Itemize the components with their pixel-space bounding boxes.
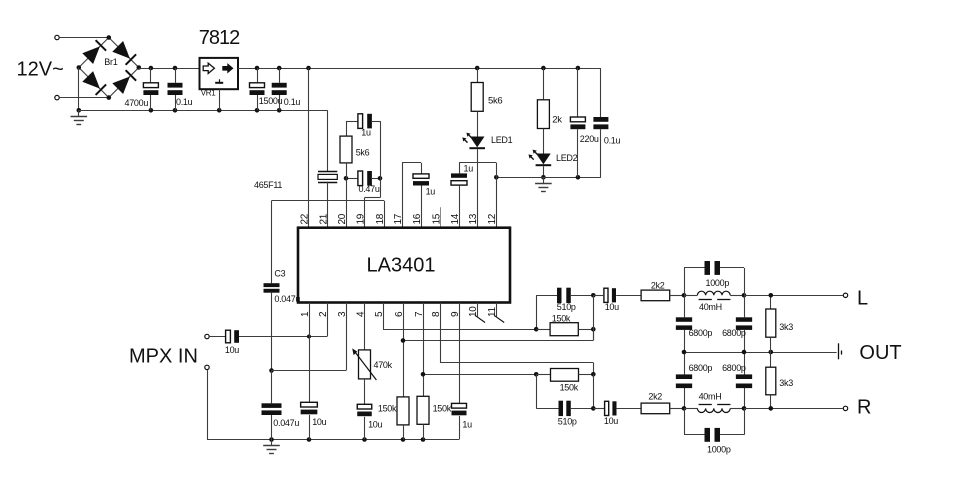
svg-text:10u: 10u: [605, 302, 619, 312]
bridge rectifier Br1: [77, 35, 142, 100]
capacitor 0.1u (right): [593, 68, 620, 177]
capacitor 1u (pins 14-12): [451, 163, 497, 228]
svg-text:22: 22: [299, 213, 310, 224]
label R: [857, 397, 871, 419]
svg-text:0.047u: 0.047u: [274, 294, 300, 304]
wire LED/cap return to pin 12: [494, 175, 601, 180]
svg-text:0.1u: 0.1u: [604, 136, 621, 146]
svg-text:1u: 1u: [462, 420, 472, 430]
wire C3 node to pin 18: [272, 201, 385, 228]
wire +12V regulated rail: [238, 66, 601, 71]
svg-text:17: 17: [393, 213, 404, 224]
terminal L output: [843, 293, 847, 297]
svg-text:3k3: 3k3: [779, 322, 793, 332]
svg-text:0.47u: 0.47u: [359, 184, 380, 194]
potentiometer 470k: [352, 303, 392, 381]
capacitor 6800p (L right): [722, 295, 752, 352]
svg-text:10u: 10u: [225, 345, 239, 355]
capacitor 0.47u: [344, 171, 383, 194]
svg-text:220u: 220u: [580, 134, 599, 144]
svg-text:12: 12: [487, 213, 498, 224]
svg-text:4700u: 4700u: [125, 98, 149, 108]
terminal AC input top: [55, 35, 59, 39]
svg-text:0.047u: 0.047u: [273, 418, 299, 428]
capacitor C3 0.047u: [264, 201, 301, 371]
svg-text:40mH: 40mH: [699, 391, 722, 401]
wire bottom ground rail: [207, 437, 459, 442]
resistor 2k2 (R): [641, 392, 684, 414]
svg-text:6800p: 6800p: [689, 363, 713, 373]
svg-text:VR1: VR1: [201, 88, 217, 97]
svg-text:40mH: 40mH: [699, 302, 722, 312]
svg-text:C3: C3: [274, 269, 285, 279]
svg-text:510p: 510p: [557, 302, 576, 312]
inductor 40mH (L): [682, 291, 747, 312]
svg-text:OUT: OUT: [859, 342, 901, 364]
wire MPX ground to bottom rail: [207, 370, 209, 439]
wire +12V unregulated rail: [139, 66, 201, 71]
resistor 150k (L): [536, 295, 595, 340]
svg-text:10u: 10u: [368, 420, 382, 430]
wire pin 15 stub: [440, 207, 442, 227]
capacitor 6800p (R left): [676, 352, 713, 408]
svg-text:1u: 1u: [361, 128, 371, 138]
capacitor 1500u: [250, 68, 283, 110]
terminal R output: [843, 406, 847, 410]
ground (OUT jack): [839, 343, 842, 359]
ceramic filter 465F11: [254, 110, 337, 227]
wire VR1 ground: [219, 89, 221, 110]
resistor 5k6 (LED1): [471, 68, 502, 111]
capacitor 4700u: [125, 68, 159, 110]
resistor 3k3 (upper): [766, 295, 793, 352]
pin numbers bottom row 1-11: [300, 306, 498, 317]
svg-text:16: 16: [412, 213, 423, 224]
svg-text:0.1u: 0.1u: [176, 97, 193, 107]
svg-text:7812: 7812: [199, 27, 240, 49]
label MPX IN: [129, 346, 198, 368]
svg-text:1000p: 1000p: [706, 278, 730, 288]
svg-text:20: 20: [337, 213, 348, 224]
resistor 3k3 (lower): [766, 352, 793, 408]
ground (bottom rail): [263, 440, 280, 454]
svg-text:19: 19: [355, 213, 366, 224]
svg-text:150k: 150k: [560, 382, 579, 392]
capacitor 0.1u (post-reg): [272, 68, 301, 110]
resistor 150k (pin 7): [417, 303, 452, 440]
svg-text:3k3: 3k3: [779, 378, 793, 388]
label L: [857, 288, 868, 310]
svg-text:2k: 2k: [552, 115, 562, 126]
ground: [71, 108, 88, 125]
capacitor 10u (R out): [593, 401, 641, 426]
wire LED1 to pin 13: [477, 149, 479, 228]
resistor 5k6 (pin 20): [340, 121, 370, 163]
wire 1u/0.47u right leg to pin 19: [365, 121, 381, 228]
IC U1 LA3401: [298, 228, 510, 303]
wire pin 8 to R network: [440, 303, 594, 375]
svg-text:6800p: 6800p: [722, 363, 746, 373]
svg-text:15: 15: [431, 213, 442, 224]
svg-text:Br1: Br1: [104, 57, 117, 67]
resistor 150k (pin 6): [378, 303, 409, 440]
svg-text:R: R: [857, 397, 871, 419]
svg-text:21: 21: [318, 213, 329, 224]
svg-text:465F11: 465F11: [254, 180, 282, 190]
capacitor 1u (pins 20-19 top): [346, 114, 380, 138]
svg-text:5k6: 5k6: [488, 95, 502, 106]
LED2: [529, 129, 578, 166]
capacitor 10u (pin 1): [301, 303, 327, 440]
svg-text:LED1: LED1: [491, 135, 513, 145]
wire bridge minus to ground rail: [78, 68, 80, 111]
capacitor 510p (L): [534, 288, 596, 332]
inductor 40mH (R): [682, 391, 747, 412]
wire pin 11 stub: [494, 303, 504, 323]
wire pin 6 to L network: [401, 329, 594, 343]
svg-text:LED2: LED2: [556, 153, 578, 163]
LED1: [462, 111, 512, 148]
svg-text:6800p: 6800p: [722, 328, 746, 338]
capacitor 6800p (R right): [722, 352, 752, 408]
svg-text:470k: 470k: [374, 360, 393, 370]
svg-text:1u: 1u: [426, 186, 436, 196]
wire MPX input to pins 1,2: [239, 303, 328, 339]
svg-text:18: 18: [375, 213, 386, 224]
svg-text:150k: 150k: [433, 403, 452, 413]
label 12V~: [17, 58, 64, 80]
wire OUT common rail: [682, 350, 837, 355]
capacitor 10u (L out): [593, 288, 641, 312]
svg-text:10u: 10u: [312, 417, 326, 427]
capacitor 6800p (L left): [676, 295, 713, 352]
capacitor 10u (pin 4): [357, 379, 382, 440]
capacitor 1000p (R): [684, 408, 745, 454]
svg-text:150k: 150k: [378, 403, 397, 413]
svg-text:2k2: 2k2: [648, 392, 662, 402]
wire pin 10 stub: [475, 303, 485, 323]
terminal AC input bottom: [55, 95, 59, 99]
svg-text:MPX IN: MPX IN: [129, 346, 198, 368]
svg-text:14: 14: [450, 213, 461, 224]
svg-text:1000p: 1000p: [707, 445, 731, 455]
svg-text:13: 13: [468, 213, 479, 224]
capacitor 1u (pins 17-16): [402, 163, 435, 228]
pin numbers top row 22-12: [299, 213, 498, 224]
terminal MPX input ground: [205, 365, 209, 369]
svg-text:6800p: 6800p: [689, 328, 713, 338]
wire L output: [744, 293, 843, 298]
svg-text:12V~: 12V~: [17, 58, 64, 80]
ground (LED2): [535, 175, 552, 192]
wire R output: [744, 406, 843, 411]
capacitor 220u: [570, 68, 599, 177]
terminal MPX input signal: [205, 334, 209, 338]
svg-text:LA3401: LA3401: [367, 255, 436, 277]
capacitor 0.1u (input): [168, 68, 193, 110]
wire LED2 cathode: [543, 166, 545, 177]
svg-text:0.1u: 0.1u: [284, 97, 301, 107]
wire ground rail: [79, 108, 328, 113]
resistor 2k2 (L): [641, 281, 684, 301]
resistor 2k: [537, 68, 562, 129]
wire pin 22 to +12V: [308, 68, 310, 228]
svg-text:2k2: 2k2: [651, 281, 665, 291]
wire pin 5 to L network: [383, 303, 536, 330]
capacitor 510p (R): [536, 374, 595, 426]
wire pin 3 to C3 node: [269, 303, 346, 373]
capacitor 10u (MPX input): [210, 330, 240, 355]
capacitor 0.047u (pin 3 node): [262, 371, 300, 440]
svg-text:510p: 510p: [558, 416, 577, 426]
wire AC top: [60, 37, 109, 39]
svg-text:L: L: [857, 288, 868, 310]
wire AC bottom: [60, 97, 109, 99]
capacitor 1000p (L): [684, 261, 745, 295]
wire pin 7 to R network: [421, 372, 537, 377]
label OUT: [859, 342, 901, 364]
capacitor 1u (pin 9): [452, 303, 473, 440]
resistor 150k (R): [534, 369, 596, 409]
svg-text:5k6: 5k6: [356, 148, 370, 158]
svg-text:150k: 150k: [552, 313, 571, 323]
regulator VR1 7812: [199, 27, 240, 97]
svg-text:1u: 1u: [464, 163, 474, 173]
svg-text:10u: 10u: [604, 416, 618, 426]
wire pin 20: [346, 163, 348, 228]
